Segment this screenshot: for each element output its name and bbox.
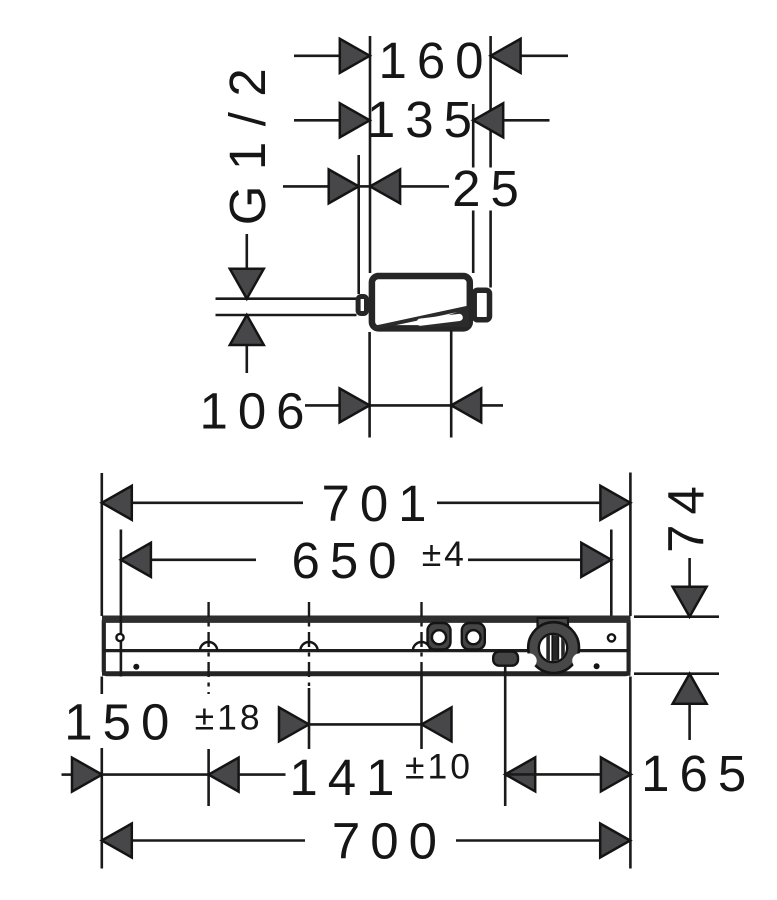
dimension 160 left leader bbox=[294, 54, 339, 57]
knob grip bar left bbox=[546, 633, 550, 663]
extension line bar left bottom lower segment bbox=[101, 748, 104, 869]
dimension 25 right leader bbox=[401, 185, 449, 188]
extension line port lower (x=421.5) bbox=[420, 676, 423, 749]
extension line hole2 lower (x=309) bbox=[308, 688, 311, 749]
dimension 106 left leader bbox=[305, 404, 339, 407]
dimension 700 right arrow bbox=[600, 824, 630, 858]
small tab below bar bbox=[493, 652, 518, 666]
right tab of body bbox=[474, 290, 489, 320]
port block 2 bbox=[462, 623, 485, 650]
dimension 160 right leader bbox=[522, 54, 569, 57]
svg-text:160: 160 bbox=[378, 32, 493, 89]
dimension 650 left arrow bbox=[121, 543, 151, 577]
dashed centre line hole 2 (x=309) bbox=[308, 602, 310, 686]
extension line tab centre (x=505.2) bbox=[504, 666, 507, 806]
dimension 141 left leader bbox=[62, 773, 72, 776]
svg-text:25: 25 bbox=[452, 160, 529, 217]
svg-text:135: 135 bbox=[367, 91, 482, 148]
extension line 650 left through bar (x=120.9) bbox=[120, 616, 123, 677]
svg-text:106: 106 bbox=[199, 383, 314, 440]
dimension 135 right leader bbox=[504, 119, 550, 122]
dimension 106 right arrow bbox=[451, 388, 481, 422]
extension line body right edge (x=473) upper segment bbox=[472, 104, 475, 168]
extension line left of body (x=370, rows 160/135/25) bbox=[369, 36, 372, 273]
svg-text:650: 650 bbox=[291, 532, 406, 589]
knob disc bbox=[528, 622, 579, 673]
shower bar outer rect bbox=[104, 618, 629, 674]
rivet dot right bbox=[594, 663, 600, 669]
dimension 700 left arrow bbox=[102, 824, 132, 858]
G 1/2 down arrow bbox=[230, 269, 264, 299]
dimension 135 right arrow bbox=[473, 103, 503, 137]
screw hole left bbox=[116, 634, 123, 641]
svg-text:700: 700 bbox=[332, 813, 447, 870]
extension line bar right bottom bbox=[629, 677, 632, 869]
dimension 650 right arrow bbox=[581, 543, 611, 577]
knob grip bar right bbox=[561, 633, 565, 663]
dimension 141 line bbox=[102, 773, 209, 776]
svg-text:G1/2: G1/2 bbox=[219, 53, 276, 226]
extension line bar left bottom upper segment bbox=[101, 677, 104, 695]
dimension 150 left arrow bbox=[279, 707, 309, 741]
screw hole right bbox=[608, 634, 615, 641]
dimension 650 line left bbox=[152, 558, 256, 561]
svg-text:150: 150 bbox=[64, 694, 179, 751]
extension line right tab outer (x=490.6) lower segment bbox=[489, 211, 492, 288]
extension line left tab outer (x=358.7) bbox=[357, 155, 360, 294]
dimension 135 left leader bbox=[294, 119, 339, 122]
rivet dot left bbox=[133, 664, 139, 670]
dimension 141 right leader bbox=[240, 773, 286, 776]
dimension 165 right arrow bbox=[601, 757, 631, 791]
shower bar thick top band bbox=[102, 616, 631, 623]
dimension 701 line right bbox=[437, 501, 599, 504]
svg-text:141: 141 bbox=[289, 749, 404, 806]
dimension 25 segment between lines bbox=[359, 185, 370, 188]
dimension 74 lower stub bbox=[688, 705, 691, 740]
dimension 74 down arrow bbox=[673, 587, 707, 617]
dimension 74 bottom ext line bbox=[634, 672, 719, 675]
dimension 25 left leader bbox=[283, 185, 328, 188]
hole arc 2 bbox=[300, 642, 317, 651]
extension line right tab outer (x=490.6) upper segment bbox=[489, 36, 492, 168]
dimension 106 extension line right (x=451.2) bbox=[450, 330, 453, 438]
G 1/2 pipe line lower bbox=[216, 314, 357, 317]
extension line bar left top (x=101.8) bbox=[101, 473, 104, 616]
dimension 701 right arrow bbox=[600, 486, 630, 520]
extension line hole1 lower (x=208.6) bbox=[207, 749, 210, 806]
hole arc 1 bbox=[200, 642, 217, 651]
dimension 165 line bbox=[505, 773, 631, 776]
extension line 650 left upper part (x=120.9) bbox=[120, 530, 123, 617]
port hole 2 bbox=[466, 630, 480, 644]
dashed centre line port (x=421.5) bbox=[420, 602, 422, 676]
dimension 700 line right bbox=[456, 839, 599, 842]
dimension 650 line right bbox=[468, 558, 580, 561]
knob notch right bbox=[572, 653, 587, 668]
port block 1 bbox=[428, 623, 451, 650]
dimension 106 left arrow bbox=[340, 388, 370, 422]
dimension 160 left arrow bbox=[340, 39, 370, 73]
svg-text:±4: ±4 bbox=[422, 534, 467, 574]
G 1/2 pipe line upper bbox=[216, 297, 357, 300]
dimension 74 top ext line bbox=[634, 615, 719, 618]
hole arc 3 bbox=[413, 642, 430, 651]
svg-text:±18: ±18 bbox=[195, 698, 263, 738]
shower bar mid rail line bbox=[103, 649, 630, 652]
extension line 650 right (x=611.3) bbox=[610, 530, 613, 617]
thermostat body outline bbox=[372, 276, 470, 328]
G 1/2 up arrow bbox=[230, 315, 264, 345]
dimension 701 left arrow bbox=[102, 486, 132, 520]
dimension 700 line left bbox=[133, 839, 305, 842]
dimension 135 left arrow bbox=[340, 103, 370, 137]
dimension 106 extension line left (x=369.6) bbox=[368, 332, 371, 438]
knob inner circle bbox=[539, 634, 567, 662]
dimension 25 left arrow bbox=[329, 169, 359, 203]
dimension 106 right leader bbox=[482, 404, 503, 407]
G 1/2 lower stub bbox=[246, 346, 249, 373]
G 1/2 upper stub bbox=[246, 234, 249, 268]
extension line body right edge (x=473) lower segment bbox=[472, 211, 475, 274]
svg-text:701: 701 bbox=[321, 475, 436, 532]
dimension 165 left arrow bbox=[505, 757, 535, 791]
dimension 150 right arrow bbox=[422, 707, 452, 741]
dimension 74 up arrow bbox=[673, 674, 707, 704]
knob notch left bbox=[522, 653, 537, 668]
dimension 141 right arrow bbox=[209, 758, 239, 792]
lever diagonal bbox=[374, 308, 470, 329]
shower bar bottom band bbox=[102, 671, 631, 676]
extension line bar right top (x=630.4) bbox=[629, 473, 632, 617]
dimension 701 line left bbox=[133, 501, 303, 504]
lever wedge bbox=[414, 308, 469, 327]
left tab of body bbox=[358, 297, 366, 314]
dimension 160 right arrow bbox=[491, 39, 521, 73]
wedge white slot bbox=[416, 313, 463, 326]
dimension 25 right arrow bbox=[370, 169, 400, 203]
dimension 141 left arrow bbox=[72, 758, 102, 792]
dimension 150 line bbox=[309, 723, 422, 726]
knob neck bbox=[538, 618, 569, 642]
knob grip bar centre bbox=[552, 633, 558, 663]
svg-text:±10: ±10 bbox=[405, 747, 473, 787]
svg-text:74: 74 bbox=[657, 476, 714, 553]
svg-text:165: 165 bbox=[641, 745, 756, 802]
dimension 74 upper stub bbox=[688, 558, 691, 586]
dimension 106 line between extension lines bbox=[370, 404, 452, 407]
port hole 1 bbox=[432, 630, 446, 644]
dashed centre line hole 1 (x=208.6) bbox=[207, 602, 209, 694]
